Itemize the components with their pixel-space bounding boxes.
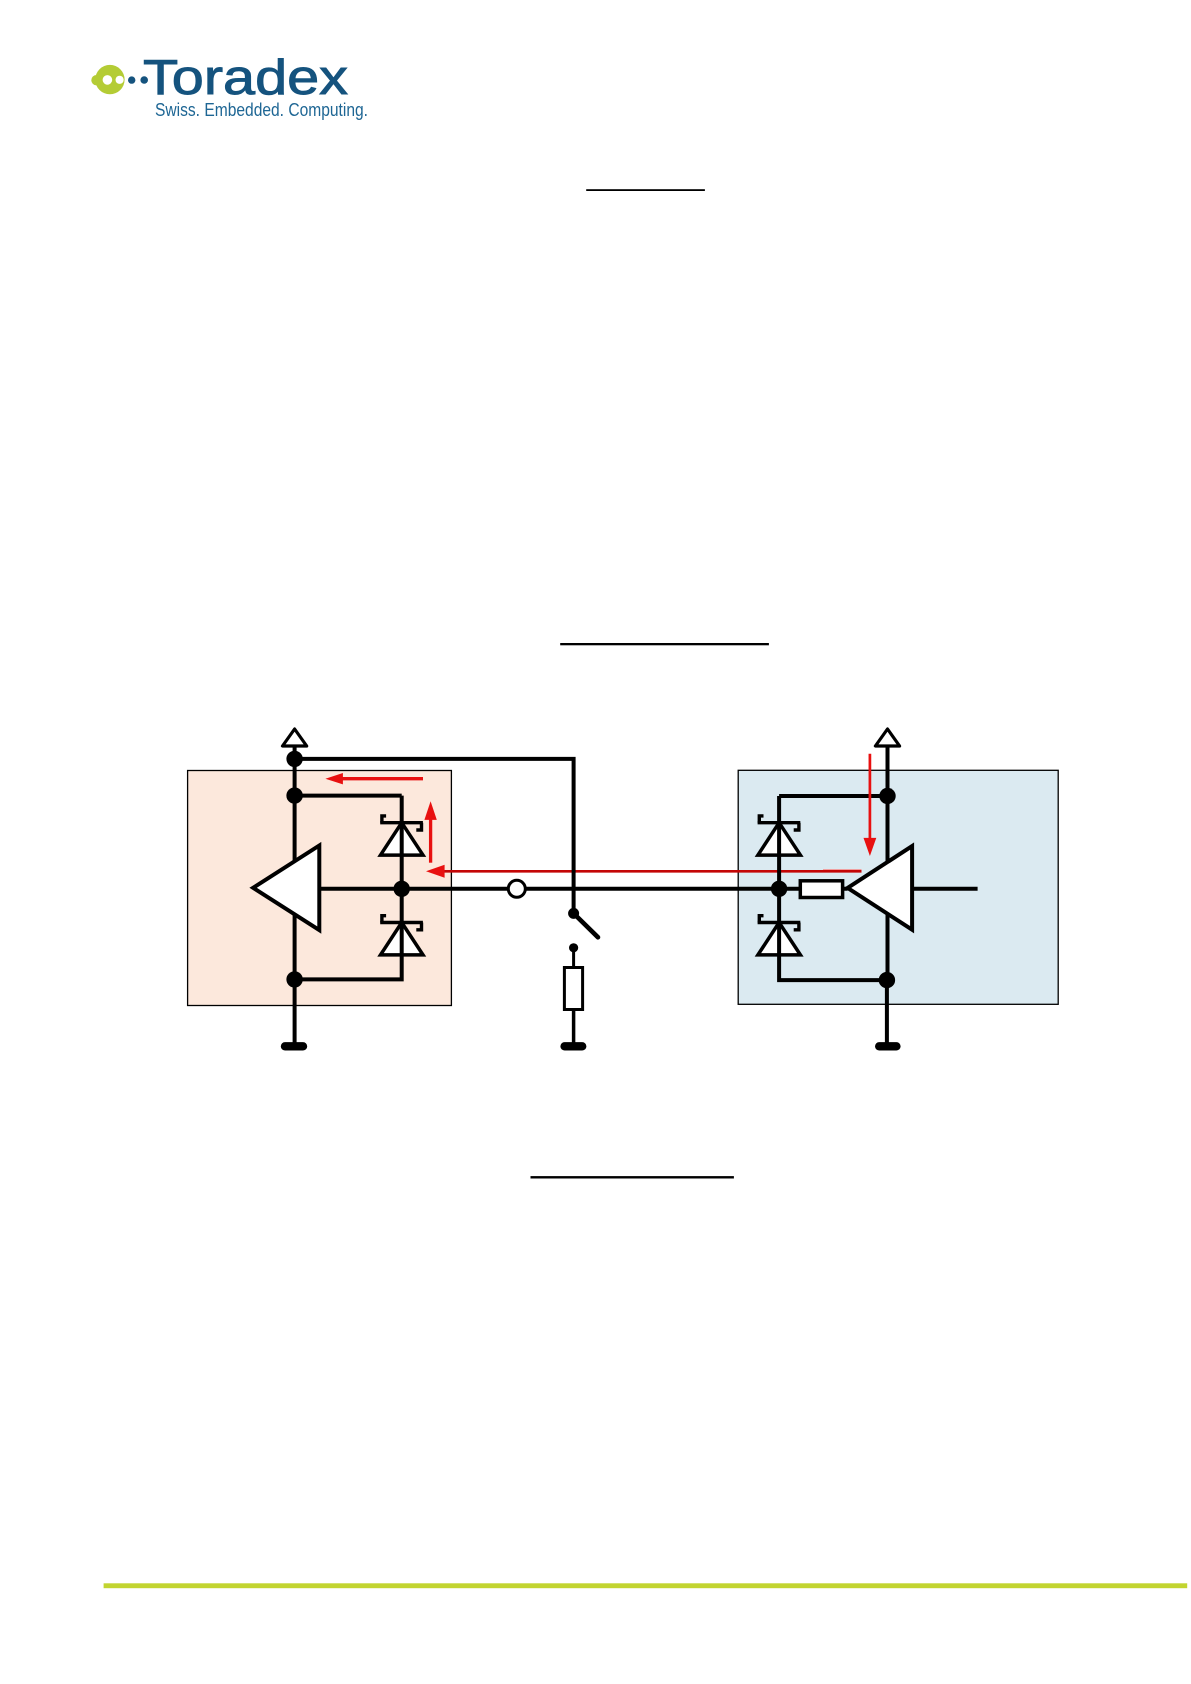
logo eye left xyxy=(103,75,113,85)
diode D3 (right top, schottky) xyxy=(758,816,801,855)
wire VCC to rail xyxy=(293,745,297,760)
logo green ear xyxy=(91,75,101,85)
left ground stem xyxy=(293,979,297,1042)
signal wire xyxy=(319,887,847,891)
switch S1 blade xyxy=(574,913,598,937)
node left bottom dot xyxy=(286,971,302,987)
red arrow down (right block) xyxy=(864,754,877,856)
red arrow top-left xyxy=(325,773,423,784)
middle ground xyxy=(565,1042,583,1050)
red arrow up xyxy=(424,801,436,862)
diode D2 (left bottom, schottky) xyxy=(380,916,423,955)
logo eye right xyxy=(116,76,124,84)
node left inner top dot xyxy=(286,787,302,803)
open connector circle xyxy=(508,880,525,897)
switch S1 pivot dot xyxy=(568,908,579,919)
wire right vcc vertical xyxy=(886,796,890,980)
right ground stem xyxy=(885,980,889,1042)
Toradex logo xyxy=(91,50,368,120)
wire right rail xyxy=(779,794,887,798)
right ground xyxy=(879,1042,896,1050)
wire right input xyxy=(912,887,978,891)
wire left inner top xyxy=(295,794,402,798)
red current loop long line xyxy=(440,870,862,873)
wire right diode chain xyxy=(779,796,887,980)
right VCC symbol xyxy=(875,729,899,746)
diode D1 (left top, schottky) xyxy=(380,816,423,855)
wire resistor to ground xyxy=(572,1010,576,1043)
wire top rail to switch xyxy=(295,759,574,914)
wire switch to resistor xyxy=(572,948,575,968)
node left signal dot xyxy=(394,881,410,897)
title underline 3 xyxy=(531,1176,734,1178)
node right VCC dot xyxy=(879,788,895,804)
title underline 1 xyxy=(586,189,705,191)
title underline 2 xyxy=(560,643,769,645)
left VCC symbol xyxy=(283,729,307,746)
logo navy dot 2 xyxy=(140,76,148,84)
resistor R2 (series) xyxy=(800,881,842,898)
footer green rule xyxy=(104,1583,1188,1588)
wire left diode chain xyxy=(295,796,402,980)
resistor R1 (pulldown) xyxy=(564,968,582,1010)
node right signal dot xyxy=(771,881,787,897)
right IC block background xyxy=(738,770,1058,1004)
buffer U1 (left, driver) xyxy=(253,846,319,931)
wire left vcc vertical xyxy=(293,759,297,980)
logo navy dot 1 xyxy=(128,76,135,83)
diode D4 (right bottom, schottky) xyxy=(758,916,801,955)
node right bottom dot xyxy=(879,972,895,988)
node VCC left dot xyxy=(286,751,302,767)
red arrowhead on long line xyxy=(426,865,445,878)
svg-text:Swiss. Embedded. Computing.: Swiss. Embedded. Computing. xyxy=(155,99,368,120)
left IC block background xyxy=(188,771,452,1006)
svg-text:Toradex: Toradex xyxy=(143,50,348,105)
wire right VCC stem xyxy=(886,745,890,797)
red current loop line (faint upper segment) xyxy=(823,869,862,871)
left ground xyxy=(285,1042,303,1050)
switch S1 contact dot xyxy=(569,943,578,952)
buffer U2 (right, receiver) xyxy=(848,846,913,930)
logo green head xyxy=(95,65,124,94)
